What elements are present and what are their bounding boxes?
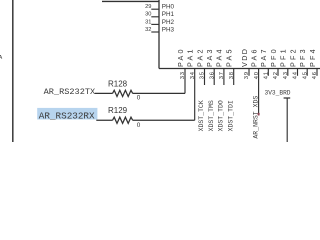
svg-text:PA6: PA6	[249, 47, 258, 67]
pin number 42	[273, 71, 279, 79]
pin label PH3	[162, 26, 175, 33]
svg-text:34: 34	[190, 71, 196, 79]
net label XDST_TMS	[208, 100, 215, 131]
pin number 46	[312, 71, 318, 79]
wire R129 to pin 34	[133, 119, 195, 121]
pin number 29	[145, 4, 151, 10]
pin label PH0	[162, 4, 175, 11]
svg-text:XDST_TDI: XDST_TDI	[227, 100, 234, 131]
reference label R128	[108, 80, 128, 89]
pin label PH1	[162, 11, 175, 18]
svg-text:PA4: PA4	[215, 47, 224, 67]
svg-text:AR_RS232TX: AR_RS232TX	[44, 87, 96, 97]
svg-text:41: 41	[264, 71, 270, 79]
reference label R129	[108, 106, 128, 115]
wire pin28 row top	[102, 0, 159, 2]
pin number 34	[190, 71, 196, 79]
svg-text:46: 46	[312, 71, 318, 79]
pin label PF4	[308, 47, 317, 67]
resistor R128	[113, 90, 133, 96]
pin number 40	[254, 71, 260, 79]
pin 41 stub	[267, 69, 269, 76]
pin 29 stub	[151, 8, 159, 10]
svg-text:XDST_TDO: XDST_TDO	[218, 100, 225, 131]
frame zone label A	[0, 55, 3, 61]
pin number 36	[209, 71, 215, 79]
svg-text:32: 32	[145, 27, 151, 33]
svg-text:PA1: PA1	[186, 47, 195, 67]
pin 32 stub	[151, 31, 159, 33]
pin number 41	[264, 71, 270, 79]
svg-text:PA5: PA5	[225, 47, 234, 67]
svg-text:44: 44	[293, 71, 299, 79]
pin number 32	[145, 27, 151, 33]
pin number 38	[229, 71, 235, 79]
svg-text:30: 30	[145, 12, 151, 18]
sheet border (left frame line)	[12, 0, 14, 142]
pin label PH2	[162, 19, 175, 26]
svg-text:45: 45	[302, 71, 308, 79]
svg-text:AR_RS232RX: AR_RS232RX	[39, 110, 95, 121]
wire AR_RS232TX to R128	[95, 92, 113, 94]
svg-text:VDD: VDD	[240, 48, 249, 67]
pin label PF0	[269, 47, 278, 67]
svg-text:PA3: PA3	[205, 47, 214, 67]
svg-text:38: 38	[229, 71, 235, 79]
pin label PA3	[205, 47, 214, 67]
pin number 45	[302, 71, 308, 79]
pin label PA4	[215, 47, 224, 67]
value 0 of R128	[137, 94, 141, 101]
svg-text:PF2: PF2	[288, 47, 297, 67]
net label XDST_TCK	[198, 100, 205, 131]
pin 38 stub and JTAG wire down	[233, 69, 235, 86]
svg-text:A: A	[0, 55, 3, 61]
svg-text:PA0: PA0	[176, 47, 185, 67]
svg-text:PF1: PF1	[279, 47, 288, 67]
IC U1 body left edge	[158, 0, 160, 69]
pin number 35	[200, 71, 206, 79]
power net label 3V3_BRD	[265, 89, 291, 96]
pin label PF2	[288, 47, 297, 67]
pin number 39	[244, 71, 250, 79]
net label AR_RS232TX	[44, 87, 96, 97]
svg-text:36: 36	[209, 71, 215, 79]
pin 44 stub	[297, 69, 299, 76]
svg-text:43: 43	[283, 71, 289, 79]
svg-text:XDST_TMS: XDST_TMS	[208, 100, 215, 131]
svg-text:PF0: PF0	[269, 47, 278, 67]
pin 37 stub and JTAG wire down	[223, 69, 225, 86]
IC U1 body bottom edge	[159, 68, 320, 70]
pin label PA1	[186, 47, 195, 67]
wire 3V3_BRD stem down	[286, 98, 288, 142]
svg-text:42: 42	[273, 71, 279, 79]
pin label PF3	[298, 47, 307, 67]
svg-text:37: 37	[219, 71, 225, 79]
pin label PA7	[259, 47, 268, 67]
pin 40 stub and wire down	[258, 69, 260, 116]
value 0 of R129	[137, 122, 141, 129]
pin label PA5	[225, 47, 234, 67]
selection highlight of AR_RS232RX	[37, 108, 97, 120]
svg-text:39: 39	[244, 71, 250, 79]
pin 31 stub	[151, 23, 159, 25]
svg-text:0: 0	[137, 122, 141, 129]
pin label VDD	[240, 48, 249, 67]
svg-text:PF4: PF4	[308, 47, 317, 67]
pin 45 stub	[306, 69, 308, 76]
wire R128 to pin 33	[133, 92, 185, 94]
svg-text:PH3: PH3	[162, 26, 175, 33]
svg-text:0: 0	[137, 94, 141, 101]
svg-text:35: 35	[200, 71, 206, 79]
svg-text:R129: R129	[108, 106, 128, 115]
pin 42 stub	[277, 69, 279, 76]
svg-text:AR_NRST_XDS: AR_NRST_XDS	[252, 96, 259, 139]
svg-text:29: 29	[145, 4, 151, 10]
svg-text:PH2: PH2	[162, 19, 175, 26]
svg-text:33: 33	[180, 71, 186, 79]
net label XDST_TDI	[227, 100, 234, 131]
pin 43 stub	[287, 69, 289, 76]
pin 39 stub	[248, 69, 250, 76]
resistor R129	[113, 117, 133, 123]
pin 36 stub and JTAG wire down	[213, 69, 215, 86]
pin number 31	[145, 19, 151, 25]
pin 35 stub and JTAG wire down	[204, 69, 206, 86]
pin number 44	[293, 71, 299, 79]
pin label PA0	[176, 47, 185, 67]
pin label PA2	[195, 47, 204, 67]
net label XDST_TDO	[218, 100, 225, 131]
svg-text:31: 31	[145, 19, 151, 25]
pin number 37	[219, 71, 225, 79]
pin number 33	[180, 71, 186, 79]
svg-text:PF3: PF3	[298, 47, 307, 67]
svg-text:PH1: PH1	[162, 11, 175, 18]
pin 46 stub	[316, 69, 318, 76]
pin 34 stub and wire down	[194, 69, 196, 121]
pin 30 stub	[151, 16, 159, 18]
pin number 43	[283, 71, 289, 79]
svg-text:PA7: PA7	[259, 47, 268, 67]
svg-text:PH0: PH0	[162, 4, 175, 11]
pin label PF1	[279, 47, 288, 67]
svg-text:3V3_BRD: 3V3_BRD	[265, 89, 291, 96]
pin number 30	[145, 12, 151, 18]
pin label PA6	[249, 47, 258, 67]
svg-text:XDST_TCK: XDST_TCK	[198, 100, 205, 131]
net label AR_NRST_XDS	[252, 96, 259, 139]
wire AR_RS232RX to R129	[96, 119, 112, 121]
net label AR_RS232RX	[39, 110, 95, 121]
svg-text:40: 40	[254, 71, 260, 79]
power symbol 3V3_BRD bar	[284, 97, 291, 99]
svg-text:PA2: PA2	[195, 47, 204, 67]
pin 33 stub and wire down	[184, 69, 186, 94]
svg-text:R128: R128	[108, 80, 128, 89]
